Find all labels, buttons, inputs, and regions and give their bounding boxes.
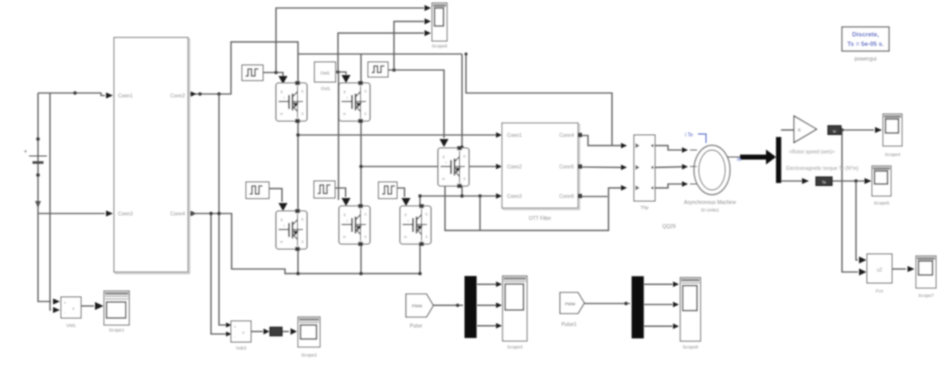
svg-text:powergui: powergui bbox=[855, 57, 877, 63]
svg-text:g: g bbox=[281, 90, 283, 94]
svg-text:Conn6: Conn6 bbox=[559, 194, 574, 200]
svg-text:<Rotor speed (wm)>: <Rotor speed (wm)> bbox=[789, 150, 835, 156]
svg-text:S: S bbox=[301, 112, 303, 116]
svg-text:Conn2: Conn2 bbox=[507, 165, 522, 171]
svg-text:m: m bbox=[404, 235, 407, 239]
svg-text:Scope2: Scope2 bbox=[301, 353, 317, 358]
svg-text:Scope6: Scope6 bbox=[432, 44, 448, 49]
svg-text:Pulse: Pulse bbox=[410, 324, 423, 330]
svg-text:S: S bbox=[463, 177, 465, 181]
svg-text:Scope4: Scope4 bbox=[885, 152, 901, 157]
svg-text:m: m bbox=[280, 112, 283, 116]
svg-text:Scope3: Scope3 bbox=[507, 345, 523, 350]
svg-text:VM1: VM1 bbox=[66, 323, 76, 328]
svg-text:Scope7: Scope7 bbox=[918, 293, 934, 298]
svg-text:Conn1: Conn1 bbox=[507, 133, 522, 139]
svg-text:Conn5: Conn5 bbox=[559, 165, 574, 171]
svg-text:S: S bbox=[364, 112, 366, 116]
svg-text:Ts = 5e-05 s.: Ts = 5e-05 s. bbox=[847, 41, 884, 48]
svg-text:Conn3: Conn3 bbox=[118, 212, 133, 218]
svg-text:Electromagnetic torque Te (N*m: Electromagnetic torque Te (N*m) bbox=[786, 166, 859, 172]
svg-text:Conn4: Conn4 bbox=[559, 133, 574, 139]
svg-text:Discrete,: Discrete, bbox=[852, 32, 879, 39]
svg-text:Conn4: Conn4 bbox=[170, 212, 185, 218]
svg-text:Conn1: Conn1 bbox=[118, 94, 133, 100]
svg-text:S: S bbox=[425, 235, 427, 239]
svg-text:m: m bbox=[442, 177, 445, 181]
svg-text:m: m bbox=[343, 235, 346, 239]
svg-text:SI Units1: SI Units1 bbox=[701, 208, 720, 213]
svg-text:Scope5: Scope5 bbox=[874, 201, 890, 206]
svg-text:g: g bbox=[344, 213, 346, 217]
svg-text:PWM: PWM bbox=[412, 304, 423, 309]
svg-text:m: m bbox=[737, 157, 741, 163]
svg-text:Scope1: Scope1 bbox=[109, 328, 125, 333]
svg-text:Out1: Out1 bbox=[320, 71, 330, 76]
svg-text:Pulse1: Pulse1 bbox=[561, 322, 577, 328]
svg-text:w: w bbox=[833, 128, 836, 133]
svg-text:OTT Filter: OTT Filter bbox=[529, 216, 552, 222]
svg-text:g: g bbox=[405, 213, 407, 217]
svg-text:Scope9: Scope9 bbox=[683, 345, 699, 350]
svg-text:QQ29: QQ29 bbox=[662, 224, 676, 230]
svg-text:i Te: i Te bbox=[685, 133, 693, 139]
svg-text:+: + bbox=[24, 150, 28, 156]
svg-text:S: S bbox=[301, 240, 303, 244]
svg-text:Thp: Thp bbox=[641, 205, 649, 210]
svg-text:Conn2: Conn2 bbox=[170, 94, 185, 100]
svg-text:g: g bbox=[344, 90, 346, 94]
svg-text:g: g bbox=[281, 218, 283, 222]
svg-text:Vub3: Vub3 bbox=[236, 346, 247, 351]
svg-text:Out1: Out1 bbox=[321, 86, 331, 91]
svg-text:PWM: PWM bbox=[565, 302, 576, 307]
svg-text:S: S bbox=[364, 235, 366, 239]
svg-text:Conn3: Conn3 bbox=[507, 194, 522, 200]
svg-text:m: m bbox=[343, 112, 346, 116]
svg-text:m: m bbox=[280, 240, 283, 244]
svg-text:Fcn: Fcn bbox=[876, 289, 884, 294]
svg-text:Asynchronous Machine: Asynchronous Machine bbox=[684, 200, 736, 206]
svg-text:g: g bbox=[443, 155, 445, 159]
svg-text:u2: u2 bbox=[877, 268, 883, 274]
